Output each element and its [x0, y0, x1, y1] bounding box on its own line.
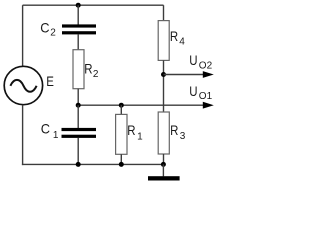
node bottom C1	[76, 162, 81, 167]
svg-text:R: R	[84, 62, 92, 77]
resistor R3	[158, 112, 169, 154]
wire left vertical from source bottom to bottom rail	[22, 105, 24, 165]
label R2	[84, 62, 99, 80]
wire C1 bottom stub	[77, 138, 79, 165]
wire top rail	[23, 4, 164, 6]
node bottom R1	[119, 162, 124, 167]
wire R2 bottom to mid rail	[77, 89, 79, 106]
wire R4 top stub	[163, 5, 165, 21]
svg-text:1: 1	[137, 131, 143, 142]
svg-text:U: U	[189, 53, 197, 68]
node U_O2 tap	[161, 72, 166, 77]
svg-text:1: 1	[53, 130, 59, 141]
wire R4 bottom to R3 top	[163, 60, 165, 112]
label U_O1	[189, 84, 212, 102]
node mid rail / R2 / C1	[76, 103, 81, 108]
wire bottom rail	[22, 163, 164, 165]
wire R1 bottom stub	[120, 154, 122, 164]
AC source E	[4, 66, 42, 104]
wire left vertical from source top to top rail	[22, 5, 24, 66]
svg-text:R: R	[170, 123, 178, 138]
resistor R1	[116, 114, 127, 154]
svg-text:E: E	[46, 74, 54, 89]
svg-text:C: C	[41, 121, 50, 136]
resistor R2	[73, 50, 84, 89]
svg-text:4: 4	[179, 37, 185, 48]
label R1	[127, 123, 143, 142]
node bottom R3 / ground	[161, 162, 166, 167]
node mid rail / R1 top	[119, 103, 124, 108]
wire C1 top stub	[77, 105, 79, 128]
node junction C2 / top rail	[76, 3, 81, 8]
wire R1 top stub	[120, 105, 122, 114]
label R3	[170, 123, 186, 142]
resistor R4	[158, 21, 169, 61]
ground	[148, 164, 180, 180]
svg-text:O1: O1	[199, 91, 213, 102]
label R4	[170, 29, 185, 47]
svg-text:2: 2	[93, 69, 99, 80]
svg-text:U: U	[189, 84, 197, 99]
capacitor C2	[62, 24, 96, 34]
svg-text:3: 3	[180, 131, 186, 142]
svg-text:R: R	[170, 29, 178, 44]
wire C2 to R2	[77, 34, 79, 50]
wire R3 bottom stub	[163, 154, 165, 164]
svg-text:2: 2	[50, 28, 56, 39]
label U_O2	[189, 53, 212, 71]
svg-text:C: C	[40, 20, 49, 35]
wire mid rail with voltage arrow U_O1	[78, 102, 214, 109]
label C1	[41, 121, 59, 141]
svg-text:R: R	[127, 123, 135, 138]
voltage arrow U_O2	[164, 71, 214, 78]
svg-text:O2: O2	[199, 60, 213, 71]
capacitor C1	[62, 128, 97, 138]
label C2	[40, 20, 56, 39]
wire C2 top stub	[77, 5, 79, 24]
